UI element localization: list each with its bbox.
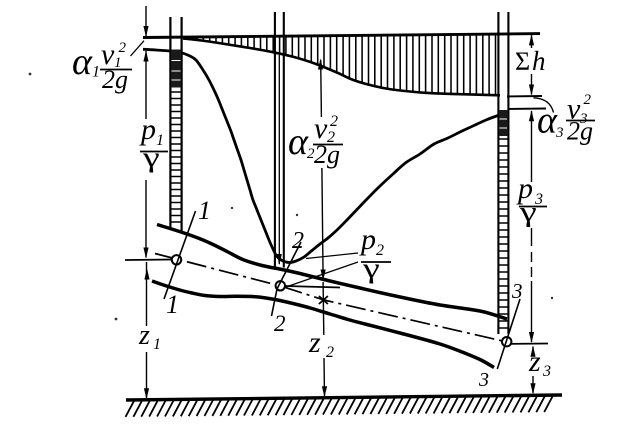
scan speck bbox=[296, 214, 298, 216]
ground (datum) line bbox=[126, 395, 562, 400]
piezometer tube 1 dark fill at water surface bbox=[171, 50, 181, 88]
svg-text:2: 2 bbox=[119, 40, 127, 56]
svg-text:3: 3 bbox=[511, 279, 523, 303]
dimension arrow up to piezometric level (section 1) bbox=[145, 51, 147, 119]
section line 3-3 bbox=[497, 299, 520, 369]
svg-text:α: α bbox=[72, 41, 93, 83]
leader from p2/gamma label to axis point 2 bbox=[286, 262, 358, 287]
piezometer tube 1 walls bbox=[170, 17, 181, 233]
svg-text:3: 3 bbox=[478, 369, 489, 391]
svg-text:γ: γ bbox=[142, 142, 160, 173]
arrow down to pipe wall / p2 level bbox=[321, 270, 326, 281]
fraction bar p2 bbox=[361, 261, 391, 263]
fraction bar p3 bbox=[519, 206, 547, 208]
reference line at section-3 axis level bbox=[509, 343, 548, 345]
piezometric level stub at section 3 bbox=[509, 108, 546, 110]
scan speck bbox=[551, 297, 553, 299]
curved leader for alpha3 v3^2/2g bbox=[534, 98, 554, 113]
pipe upper wall bbox=[157, 225, 507, 320]
svg-text:2g: 2g bbox=[102, 65, 128, 94]
scan speck bbox=[115, 318, 118, 321]
svg-text:2: 2 bbox=[584, 92, 592, 108]
section line 1-1 bbox=[164, 211, 196, 299]
cross mark where axis crosses dimension line bbox=[319, 296, 328, 304]
svg-text:2: 2 bbox=[330, 113, 338, 130]
svg-text:z: z bbox=[528, 345, 541, 378]
dimension line: velocity head arrow above energy level (section 1) bbox=[145, 6, 147, 37]
piezometric (hydraulic grade) line bbox=[143, 49, 498, 262]
dimension line z2 lower segment with ground arrow bbox=[323, 358, 326, 396]
svg-text:1: 1 bbox=[198, 196, 211, 225]
svg-text:γ: γ bbox=[519, 197, 537, 228]
scan speck bbox=[231, 207, 233, 209]
initial energy level line (horizontal datum of total head) bbox=[143, 34, 540, 38]
ground hatching strokes bbox=[126, 396, 553, 417]
fraction bar v1 bbox=[100, 69, 132, 71]
svg-text:α: α bbox=[288, 121, 309, 163]
leader from alpha1 v1^2/2g label to gap bbox=[131, 41, 145, 56]
svg-text:1: 1 bbox=[166, 290, 179, 319]
dimension line at x=324: arrow up piercing energy line bbox=[321, 60, 323, 279]
piezometer tube 2 walls bbox=[275, 12, 284, 268]
section line 2-2 bbox=[272, 242, 302, 316]
svg-text:p: p bbox=[139, 113, 156, 146]
dimension line z1 with arrows bbox=[146, 262, 148, 398]
dimension Sigma-h: lower segment with arrow down to energy line at 3 bbox=[531, 74, 533, 95]
svg-text:2g: 2g bbox=[567, 117, 593, 146]
reference line at section-1 axis level bbox=[125, 259, 172, 262]
section point circle 3 bbox=[502, 337, 511, 346]
piezometer tube 3 water column hatching (rungs) bbox=[499, 139, 507, 328]
svg-text:1: 1 bbox=[153, 336, 161, 353]
piezometer tube 1 water column hatching (rungs) bbox=[171, 92, 180, 222]
continuation to z2 label bbox=[322, 282, 325, 335]
svg-text:α: α bbox=[537, 100, 558, 142]
dimension z3 with arrows bbox=[532, 347, 534, 394]
svg-text:3: 3 bbox=[555, 125, 564, 141]
fraction bar p1 bbox=[140, 151, 168, 153]
energy line stub at section 3 bbox=[507, 95, 542, 97]
head-loss hatch (vertical ruling between initial energy level and energy line) bbox=[197, 35, 496, 95]
svg-text:2: 2 bbox=[326, 344, 334, 361]
pipe axis (dash-dot centreline through sections 1-2-3) bbox=[155, 254, 507, 343]
svg-text:z: z bbox=[308, 326, 321, 359]
section point circle 2 bbox=[276, 281, 285, 290]
piezometer tube 3 walls bbox=[498, 12, 508, 334]
reference line at section-2 axis level bbox=[285, 286, 340, 288]
scan speck bbox=[29, 73, 32, 76]
leader from p2/gamma label to piezometric level bbox=[306, 253, 358, 259]
piezometer tube 3 dark fill at water surface bbox=[499, 110, 508, 136]
svg-text:2: 2 bbox=[292, 228, 304, 254]
dimension arrow down tube 2 to piezometric minimum bbox=[278, 55, 280, 264]
svg-text:2: 2 bbox=[274, 311, 286, 336]
svg-text:3: 3 bbox=[542, 363, 551, 380]
pipe lower wall bbox=[152, 281, 494, 368]
energy grade line (falling total-head curve, bottom of hatch) bbox=[183, 39, 500, 96]
dimension v3 head: arrow up to piezometric stub bbox=[531, 111, 533, 122]
dimension p3/gamma segments bbox=[531, 122, 533, 342]
dimension Sigma-h: upper segment with arrow up to energy level bbox=[531, 35, 533, 48]
svg-text:γ: γ bbox=[362, 253, 380, 284]
svg-text:1: 1 bbox=[92, 64, 100, 81]
section point circle 1 bbox=[172, 255, 181, 264]
svg-text:h: h bbox=[532, 46, 546, 76]
fraction bar v2 bbox=[313, 144, 343, 146]
svg-text:p: p bbox=[359, 223, 376, 256]
dimension line p1/gamma lower segment with arrow to axis level bbox=[145, 180, 147, 258]
svg-text:2g: 2g bbox=[314, 140, 340, 169]
fraction bar v3 bbox=[566, 120, 595, 122]
svg-text:z: z bbox=[138, 320, 150, 351]
svg-text:Σ: Σ bbox=[515, 47, 530, 76]
